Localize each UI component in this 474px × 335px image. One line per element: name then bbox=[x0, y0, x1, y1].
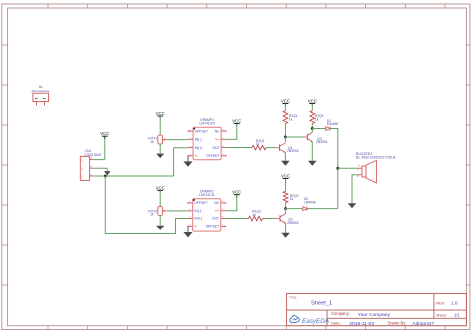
svg-text:EasyEDA: EasyEDA bbox=[302, 318, 329, 325]
svg-text:OUT: OUT bbox=[212, 217, 219, 221]
svg-text:VCC: VCC bbox=[232, 118, 241, 123]
svg-text:OUT: OUT bbox=[212, 146, 219, 150]
svg-text:VCC: VCC bbox=[281, 173, 290, 178]
svg-text:V+: V+ bbox=[215, 138, 219, 142]
svg-text:VCC: VCC bbox=[156, 111, 165, 116]
svg-text:Company:: Company: bbox=[331, 311, 350, 316]
svg-text:Your Company: Your Company bbox=[358, 312, 391, 318]
svg-text:VCC: VCC bbox=[156, 185, 165, 190]
svg-text:VCC: VCC bbox=[281, 98, 290, 103]
svg-text:VCC: VCC bbox=[232, 190, 241, 195]
svg-text:REV:: REV: bbox=[436, 301, 445, 306]
svg-text:2019-11-03: 2019-11-03 bbox=[349, 321, 374, 327]
svg-text:2N3904: 2N3904 bbox=[316, 140, 328, 144]
svg-text:V-: V- bbox=[195, 154, 198, 158]
svg-text:Sheet:: Sheet: bbox=[436, 314, 447, 318]
svg-text:1k: 1k bbox=[256, 142, 260, 146]
svg-text:IN(+): IN(+) bbox=[195, 146, 203, 150]
svg-text:IN(+): IN(+) bbox=[194, 217, 202, 221]
svg-text:BL-PBZ12065C27051A: BL-PBZ12065C27051A bbox=[356, 156, 396, 160]
svg-text:IN(-): IN(-) bbox=[194, 209, 201, 213]
svg-text:Alimentazione: Alimentazione bbox=[31, 89, 50, 93]
svg-text:OFFSET: OFFSET bbox=[195, 129, 208, 133]
svg-text:1/1: 1/1 bbox=[454, 313, 460, 318]
svg-text:Date:: Date: bbox=[331, 320, 341, 325]
svg-text:1N4448: 1N4448 bbox=[327, 122, 339, 126]
svg-text:IN(-): IN(-) bbox=[195, 138, 202, 142]
svg-text:TITLE:: TITLE: bbox=[289, 295, 297, 299]
svg-text:1k: 1k bbox=[289, 118, 293, 122]
svg-text:VCC: VCC bbox=[100, 131, 109, 136]
svg-text:V+: V+ bbox=[215, 209, 219, 213]
svg-text:Sheet_1: Sheet_1 bbox=[311, 300, 332, 306]
svg-text:LM741CN: LM741CN bbox=[199, 122, 215, 126]
svg-text:1k: 1k bbox=[150, 213, 154, 217]
svg-text:1k: 1k bbox=[315, 118, 319, 122]
svg-text:1k: 1k bbox=[150, 140, 154, 144]
svg-text:LM741CN: LM741CN bbox=[199, 193, 215, 197]
svg-text:NC: NC bbox=[214, 201, 219, 205]
svg-text:OFFSET: OFFSET bbox=[194, 201, 207, 205]
svg-text:2N3904: 2N3904 bbox=[287, 221, 299, 225]
svg-text:1k: 1k bbox=[290, 197, 294, 201]
svg-text:Drawn By:: Drawn By: bbox=[388, 320, 407, 325]
svg-text:OFFSET: OFFSET bbox=[206, 225, 219, 229]
svg-text:NC: NC bbox=[215, 129, 220, 133]
svg-text:2N3904: 2N3904 bbox=[287, 149, 299, 153]
svg-text:VCC: VCC bbox=[308, 98, 317, 103]
svg-text:1.0: 1.0 bbox=[451, 301, 458, 306]
svg-text:V-: V- bbox=[194, 225, 197, 229]
svg-text:OFFSET: OFFSET bbox=[206, 154, 219, 158]
svg-text:1k: 1k bbox=[252, 213, 256, 217]
svg-text:1N4448: 1N4448 bbox=[304, 200, 316, 204]
svg-text:Adrian447: Adrian447 bbox=[412, 321, 434, 327]
